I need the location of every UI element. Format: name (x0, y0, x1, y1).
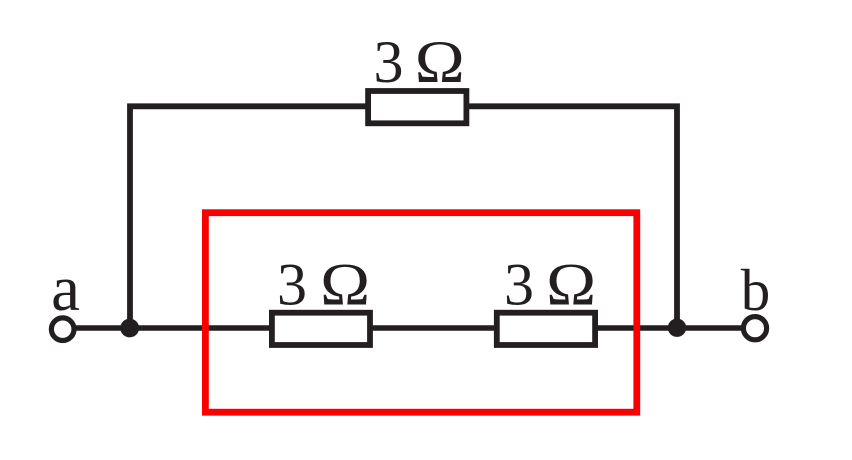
svg-text:b: b (741, 257, 771, 323)
label 3 Ω (bottom-left resistor) (277, 252, 370, 318)
svg-text:Ω: Ω (415, 29, 465, 95)
svg-text:Ω: Ω (546, 252, 596, 318)
terminal a (open circle) (51, 318, 74, 341)
junction dot (left node) (120, 319, 139, 338)
svg-text:Ω: Ω (320, 252, 370, 318)
svg-text:3: 3 (374, 29, 404, 95)
terminal b (open circle) (743, 317, 766, 340)
label 3 Ω (bottom-right resistor) (504, 252, 596, 318)
resistor R3 (bottom right, 3 ohm) (497, 313, 595, 345)
wire: main horizontal a-b at y=328 (62, 325, 756, 330)
resistor R1 (top, 3 ohm) (368, 91, 466, 123)
svg-text:3: 3 (504, 252, 534, 318)
wire: top branch (left riser, top run, right riser) (130, 106, 677, 328)
junction dot (right node) (668, 319, 686, 337)
svg-text:a: a (51, 253, 80, 325)
red highlight box around series pair (205, 213, 636, 413)
resistor R2 (bottom left, 3 ohm) (272, 313, 370, 345)
svg-text:3: 3 (277, 252, 307, 318)
label 3 Ω (top resistor) (374, 29, 465, 95)
